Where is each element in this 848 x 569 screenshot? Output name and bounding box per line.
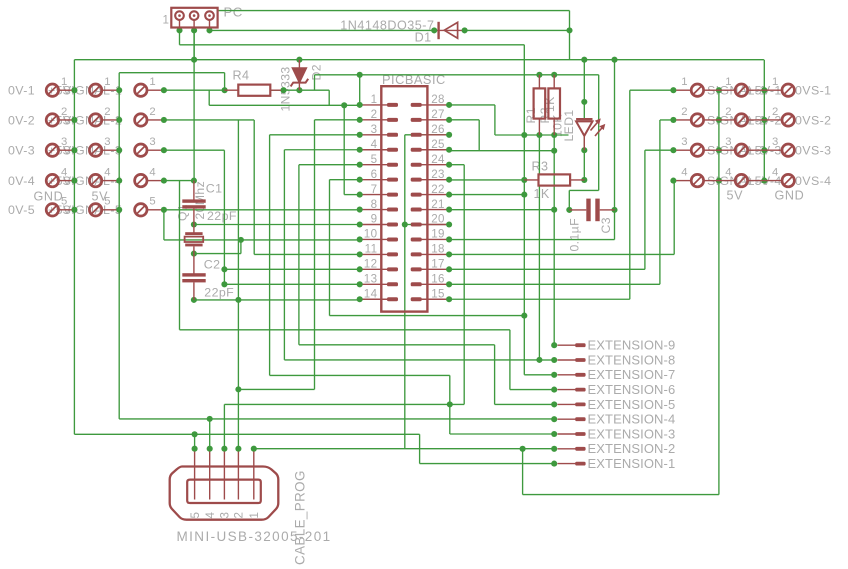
pin lead left row2 col2	[102, 119, 117, 121]
wire pin5 line	[299, 164, 360, 166]
junction pin 23 of U1	[446, 177, 452, 183]
pin line 20 of U1	[421, 224, 449, 226]
junction row5 col2	[116, 207, 122, 213]
junction pin 15 of U1	[446, 296, 452, 302]
wire vertical x=344.2 pin7 up to MCLR line	[343, 105, 345, 194]
svg-text:EXTENSION-8: EXTENSION-8	[588, 352, 676, 367]
junction pin 13 of U1	[357, 281, 363, 287]
pin line 10 of U1	[360, 238, 388, 240]
junction row1 col1	[71, 87, 77, 93]
svg-text:CABLE_PROG: CABLE_PROG	[293, 470, 308, 565]
pad pin 28 of U1	[411, 103, 422, 107]
svg-text:1: 1	[149, 76, 156, 88]
junction D1 cathode	[462, 27, 468, 33]
junction rail at C3 vertical	[611, 57, 617, 63]
pin line 19 of U1	[421, 238, 449, 240]
svg-text:9: 9	[371, 213, 378, 226]
terminal X6-2 right	[782, 114, 794, 126]
wire USB pin5 vertical	[194, 434, 196, 448]
wire x=614.5 C3 right down to pin19	[614, 210, 616, 240]
pad EXTENSION-1	[575, 462, 585, 466]
pin line 9 of U1	[360, 224, 388, 226]
junction row3 col3	[161, 147, 167, 153]
crystal Q1 body	[185, 237, 204, 242]
wire pin25 line y=150.7	[449, 150, 554, 152]
pin lead C1 bottom	[193, 209, 195, 225]
pin lead EXTENSION-3	[558, 433, 577, 435]
pad EXTENSION-2	[575, 447, 585, 451]
svg-text:4: 4	[371, 138, 378, 151]
connector PC screw pin 1	[175, 11, 184, 20]
pin lead right row1 a	[676, 89, 691, 91]
junction R4 right lead	[280, 87, 286, 93]
pin line 11 of U1	[360, 253, 388, 255]
svg-text:EXTENSION-7: EXTENSION-7	[588, 367, 676, 382]
svg-text:0VS-2: 0VS-2	[795, 113, 831, 127]
junction row2 col2	[116, 117, 122, 123]
wire y=344.8 to EXT-5 feeder	[299, 344, 495, 346]
svg-text:0.1µF: 0.1µF	[568, 218, 582, 251]
wire pin12 line	[224, 268, 359, 270]
pin lead C2 bottom	[193, 282, 195, 300]
svg-text:0V-4: 0V-4	[8, 174, 35, 188]
wire y=389.4 pin2 net to USB D-	[238, 388, 314, 390]
junction pin 5 of U1	[357, 162, 363, 168]
svg-text:4: 4	[149, 166, 156, 178]
svg-text:5: 5	[371, 153, 378, 166]
wire pin19 line	[449, 239, 614, 241]
junction pin 18 of U1	[446, 251, 452, 257]
wire x=419.6 down	[419, 434, 421, 463]
svg-text:1: 1	[725, 76, 732, 88]
junction pin13 T	[221, 281, 227, 287]
wire PC pin3 to D1 anode	[210, 29, 435, 31]
terminal X3-2 left	[135, 114, 147, 126]
pin lead D2 top	[298, 60, 300, 68]
pin lead C3 left	[569, 209, 586, 211]
pin line 21 of U1	[421, 209, 449, 211]
junction row4 col2	[116, 178, 122, 184]
junction USB pin 4	[207, 446, 213, 452]
junction row3 col2	[116, 147, 122, 153]
pin lead left row1 col2	[102, 89, 117, 91]
svg-text:GND: GND	[775, 189, 805, 203]
svg-text:8: 8	[371, 198, 378, 211]
diode D1 triangle	[444, 22, 457, 38]
wire row5 descender x=163.9	[163, 210, 165, 240]
svg-text:5V: 5V	[727, 189, 744, 203]
wire vertical x=509.9 to EXT-6	[509, 330, 511, 390]
led LED1 arrow 1	[591, 120, 600, 131]
svg-text:2: 2	[725, 106, 732, 118]
junction pin 21 of U1	[446, 207, 452, 213]
pin lead EXTENSION-8	[558, 359, 577, 361]
pad pin 20 of U1	[411, 223, 422, 227]
wire row1 right stub	[630, 89, 674, 91]
junction right row4 stub	[670, 178, 676, 184]
junction row5 col1	[71, 207, 77, 213]
terminal X2-4 left	[89, 174, 101, 186]
pin lead right row2 b	[704, 119, 719, 121]
terminal X1-2 left	[46, 114, 58, 126]
junction R2 top	[551, 72, 557, 78]
wire GND run y=434.3	[74, 433, 419, 435]
junction USB pin4 T	[207, 416, 213, 422]
svg-text:C1: C1	[206, 181, 223, 195]
pin line 25 of U1	[421, 149, 449, 151]
resistor R1	[534, 88, 546, 118]
connector CABLE_PROG body	[170, 467, 279, 520]
pad pin 26 of U1	[411, 133, 422, 137]
pad pin 2 of U1	[387, 118, 398, 122]
wire pin13 line	[224, 283, 359, 285]
junction on LED anode	[581, 99, 587, 105]
wire bottom loop y=494.6	[523, 494, 719, 496]
pad pin 14 of U1	[387, 297, 398, 301]
svg-text:4: 4	[772, 166, 779, 178]
junction row1 col2	[116, 87, 122, 93]
junction rail at D2 top	[296, 57, 302, 63]
wire vertical x=179.5 row4 down	[179, 181, 181, 330]
svg-text:R1: R1	[524, 107, 538, 123]
wire pin17 line	[449, 268, 645, 270]
wire PC pin1 net to x=524	[180, 44, 525, 46]
junction pin 24 of U1	[446, 162, 452, 168]
pin lead right row1 e	[764, 89, 782, 91]
resistor R3	[539, 174, 571, 185]
svg-text:2: 2	[61, 106, 68, 118]
wire pin4 line	[284, 149, 359, 151]
wire vertical x=524.3 from y=44.8 down to EXT-7 feeder	[523, 45, 525, 375]
wire y=375.4 to EXT-3 feeder	[270, 374, 450, 376]
junction pin 27 of U1	[446, 117, 452, 123]
svg-text:0V-1: 0V-1	[8, 84, 35, 98]
pin lead right row2 c	[719, 119, 735, 121]
svg-text:3: 3	[219, 512, 232, 519]
svg-text:25: 25	[431, 138, 445, 151]
svg-text:EXTENSION-3: EXTENSION-3	[588, 426, 676, 441]
junction crystal top at row4	[191, 178, 197, 184]
wire LED cathode down	[583, 137, 585, 180]
junction pin 19 of U1	[446, 236, 452, 242]
junction LED cathode	[581, 147, 587, 153]
svg-text:19: 19	[431, 228, 445, 241]
junction C3 left	[566, 207, 572, 213]
pin line 6 of U1	[360, 179, 388, 181]
svg-text:1: 1	[104, 76, 111, 88]
wire Q1 bottom to jog	[194, 253, 241, 255]
junction row3 col1	[71, 147, 77, 153]
pin lead left row4 col2	[102, 180, 117, 182]
junction rail at LED top	[581, 57, 587, 63]
wire x=479.2 down	[478, 120, 480, 151]
junction right row3 col2	[716, 147, 722, 153]
pad pin 27 of U1	[411, 118, 422, 122]
wire pin9 line y=224.5	[194, 224, 360, 226]
junction right row1 col2	[716, 87, 722, 93]
wire pin10 line y=239.9	[164, 239, 360, 241]
svg-text:4: 4	[681, 166, 688, 178]
terminal X5-1 right	[735, 84, 747, 96]
terminal X3-3 left	[135, 144, 147, 156]
junction R1 top	[536, 72, 542, 78]
pin lead EXTENSION-2	[558, 448, 577, 450]
terminal X6-3 right	[782, 144, 794, 156]
pad pin 12 of U1	[387, 267, 398, 271]
svg-text:EXTENSION-1: EXTENSION-1	[588, 456, 676, 471]
wire EXT-7 row	[524, 374, 554, 376]
wire vertical x=269.6 pin3 down	[269, 135, 271, 376]
svg-text:1K: 1K	[534, 187, 550, 201]
svg-text:PC: PC	[224, 5, 243, 20]
wire R4 right to D2 bottom	[270, 89, 299, 91]
junction pin 25 of U1	[446, 147, 452, 153]
pin lead left row5 col1	[59, 209, 72, 211]
wire EXT-8 row	[539, 359, 554, 361]
svg-text:1: 1	[772, 76, 779, 88]
junction right row2 col2	[716, 117, 722, 123]
pin line 28 of U1	[421, 104, 449, 106]
terminal X3-4 left	[135, 174, 147, 186]
wire left col2 vertical x=119.2	[118, 73, 120, 419]
svg-text:11: 11	[365, 243, 378, 256]
junction pin21 T on R2 vertical	[551, 207, 557, 213]
capacitor C2 plates	[182, 273, 205, 276]
svg-text:R4: R4	[233, 69, 250, 83]
wire pin2 line	[315, 119, 360, 121]
junction pin 28 of U1	[446, 102, 452, 108]
wire pin6 line	[330, 179, 360, 181]
svg-text:22pF: 22pF	[204, 285, 234, 299]
pin lead D2 bottom	[298, 83, 300, 91]
wire vertical x=224.4 line B to USB pin3	[223, 404, 225, 448]
terminal X5-4 right	[735, 174, 747, 186]
pad pin 16 of U1	[411, 282, 422, 286]
junction EXTENSION-9	[551, 342, 557, 348]
svg-text:3: 3	[725, 136, 732, 148]
svg-text:0V-2: 0V-2	[8, 113, 35, 127]
svg-text:5V: 5V	[92, 190, 109, 204]
junction PC pin1	[176, 27, 182, 33]
terminal X2-1 left	[89, 84, 101, 96]
wire y=74.8 right to R1 R2 tops	[360, 74, 599, 76]
wire EXT-6 feeder y=329.8	[180, 329, 510, 331]
pad pin 15 of U1	[411, 297, 422, 301]
junction pin 4 of U1	[357, 147, 363, 153]
pin lead right row3 c	[719, 149, 735, 151]
svg-text:7: 7	[371, 183, 378, 196]
pin line 18 of U1	[421, 253, 449, 255]
pin lead C1 top	[193, 181, 195, 201]
pin lead left row5 col2	[102, 209, 117, 211]
pad pin 23 of U1	[411, 178, 422, 182]
pin lead R4 left	[225, 89, 239, 91]
junction rail at PC pin2 vertical	[191, 57, 197, 63]
zener diode D2 cathode bar	[291, 79, 309, 87]
wire EXT-3 row	[450, 433, 554, 435]
pin lead D1 through line	[434, 29, 464, 31]
svg-text:26: 26	[431, 123, 445, 136]
connector PC screw pin 2	[190, 11, 199, 20]
pin lead right row4 a	[676, 180, 691, 182]
wire PC pin1 down	[179, 27, 181, 45]
pad EXTENSION-4	[575, 417, 585, 421]
junction right row3 col3	[761, 147, 767, 153]
junction PC pin2	[191, 27, 197, 33]
junction C3 right	[611, 207, 617, 213]
wire EXT-5 row	[495, 403, 555, 405]
pin lead USB pin 4	[209, 452, 211, 500]
junction pin20 T on through wire	[402, 221, 408, 227]
wire y=190.4 jog to C3 left	[569, 189, 598, 191]
junction right row4 col3	[761, 178, 767, 184]
svg-text:6: 6	[371, 168, 378, 181]
svg-text:3: 3	[61, 136, 68, 148]
svg-text:1: 1	[248, 512, 261, 519]
pin line 8 of U1	[360, 209, 388, 211]
svg-text:MINI-USB-32005-201: MINI-USB-32005-201	[177, 529, 332, 544]
pin lead left row2 col1	[59, 119, 72, 121]
wire vertical x=464.2 pin24 down to line B	[463, 165, 465, 405]
wire vertical x=449.8 to EXT-3	[449, 375, 451, 434]
svg-text:2: 2	[233, 512, 246, 519]
svg-text:0V-3: 0V-3	[8, 144, 35, 158]
pad EXTENSION-6	[575, 388, 585, 392]
svg-text:D1: D1	[415, 31, 432, 45]
terminal X2-2 left	[89, 114, 101, 126]
connector PC screw pin 3	[205, 11, 214, 20]
junction EXTENSION-5	[551, 401, 557, 407]
wire top rail from PC box to x=569	[218, 10, 570, 12]
wire pin21 line	[449, 209, 554, 211]
svg-text:16: 16	[431, 273, 445, 286]
junction pin 22 of U1	[446, 192, 452, 198]
svg-text:13: 13	[364, 273, 378, 286]
terminal X1-1 left	[46, 84, 58, 96]
wire vertical x=539.4 R1 bottom to R3 top	[538, 135, 540, 174]
wire PC pin2 vertical to row4	[193, 30, 195, 180]
junction EXTENSION-4	[551, 416, 557, 422]
junction y=74.8 at x=359.7	[357, 72, 363, 78]
wire pin27 right	[449, 119, 479, 121]
wire y=315.6 to EXT-7 feeder	[330, 315, 525, 317]
pin lead left row1 col3	[147, 89, 161, 91]
pad pin 18 of U1	[411, 252, 422, 256]
pin line 17 of U1	[421, 268, 449, 270]
terminal X5-2 right	[735, 114, 747, 126]
pad pin 24 of U1	[411, 163, 422, 167]
wire col2 top jog to R4	[119, 72, 224, 74]
junction USB pin 5	[192, 446, 198, 452]
wire x=598.7 down	[598, 75, 600, 191]
wire row1 to R4 left	[164, 89, 225, 91]
svg-text:1: 1	[371, 93, 378, 106]
pin lead Q1 bottom	[193, 246, 195, 253]
led LED1 arrow 2	[595, 126, 604, 137]
svg-text:4: 4	[104, 166, 111, 178]
svg-text:0V-5: 0V-5	[8, 203, 35, 217]
junction D2 bottom	[296, 87, 302, 93]
svg-text:2: 2	[104, 106, 111, 118]
junction USB pin 3	[221, 446, 227, 452]
pin lead right row1 d	[748, 89, 765, 91]
pin lead LED1 cathode	[583, 136, 585, 150]
svg-text:20: 20	[431, 213, 445, 226]
pin lead EXTENSION-6	[558, 389, 577, 391]
wire x=359.7 down to pin1	[359, 75, 361, 105]
pad pin 21 of U1	[411, 208, 422, 212]
pin lead right row3 a	[676, 149, 691, 151]
pin lead right row4 c	[719, 180, 735, 182]
wire 5V run y=418.9 to EXT-4	[119, 418, 554, 420]
pin lead R4 right	[270, 89, 281, 91]
junction right row1 col3	[761, 87, 767, 93]
junction pin 8 of U1	[357, 207, 363, 213]
wire pin15 line	[449, 298, 630, 300]
wire EXT-1 row	[420, 463, 555, 465]
wire pin7 line	[344, 194, 360, 196]
resistor R2	[548, 88, 560, 118]
wire vertical x=539.4 R3 bottom to EXT-8	[538, 186, 540, 360]
terminal X4-4 right	[691, 174, 703, 186]
junction y=389.4 at x=238.4	[235, 386, 241, 392]
svg-text:14: 14	[364, 287, 378, 300]
wire EXT-6 row	[510, 389, 554, 391]
junction right row4 col2	[716, 178, 722, 184]
junction Q1 jog T	[238, 237, 244, 243]
pin lead right row4 b	[704, 180, 719, 182]
junction EXTENSION-2	[551, 446, 557, 452]
svg-text:EXTENSION-9: EXTENSION-9	[588, 338, 676, 353]
pad pin 7 of U1	[387, 193, 398, 197]
pad pin 17 of U1	[411, 267, 422, 271]
wire USB pin1 line y=448.7	[254, 448, 554, 450]
wire x=644.9 up to row3 right	[644, 150, 646, 269]
terminal X1-3 left	[46, 144, 58, 156]
svg-text:LED1: LED1	[562, 109, 576, 141]
junction EXTENSION-3	[551, 431, 557, 437]
pin lead left row3 col3	[147, 149, 161, 151]
junction pin 9 of U1	[357, 221, 363, 227]
pin lead C3 right	[600, 209, 615, 211]
wire row3 right stub	[645, 149, 674, 151]
svg-text:EXTENSION-2: EXTENSION-2	[588, 441, 676, 456]
pin line 14 of U1	[360, 298, 388, 300]
wire vertical x=314.5 pin2 down	[314, 120, 316, 390]
wire USB pin2 vertical x=238.4	[237, 120, 239, 449]
pad pin 5 of U1	[387, 163, 398, 167]
wire x=629.8 up to row1 right	[629, 90, 631, 299]
wire row2 right stub	[660, 119, 674, 121]
svg-text:23: 23	[431, 168, 445, 181]
pin lead left row4 col3	[147, 180, 161, 182]
svg-text:0VS-3: 0VS-3	[795, 144, 831, 158]
pad pin 10 of U1	[387, 237, 398, 241]
pin lead Q1 top	[193, 225, 195, 234]
wire R1R2 bottom rail y=135.0	[495, 134, 569, 136]
pin lead left row2 col3	[147, 119, 161, 121]
terminal X3-1 left	[135, 84, 147, 96]
wire y=359.9 to EXT-8 feeder	[284, 359, 539, 361]
resistor R4	[238, 85, 270, 96]
pad pin 1 of U1	[387, 103, 398, 107]
svg-text:3: 3	[772, 136, 779, 148]
svg-text:1: 1	[163, 14, 170, 27]
junction pin 1 of U1	[357, 102, 363, 108]
pin lead right row4 d	[748, 180, 765, 182]
crystal Q1 bottom plate	[185, 244, 202, 247]
junction pin 11 of U1	[357, 251, 363, 257]
